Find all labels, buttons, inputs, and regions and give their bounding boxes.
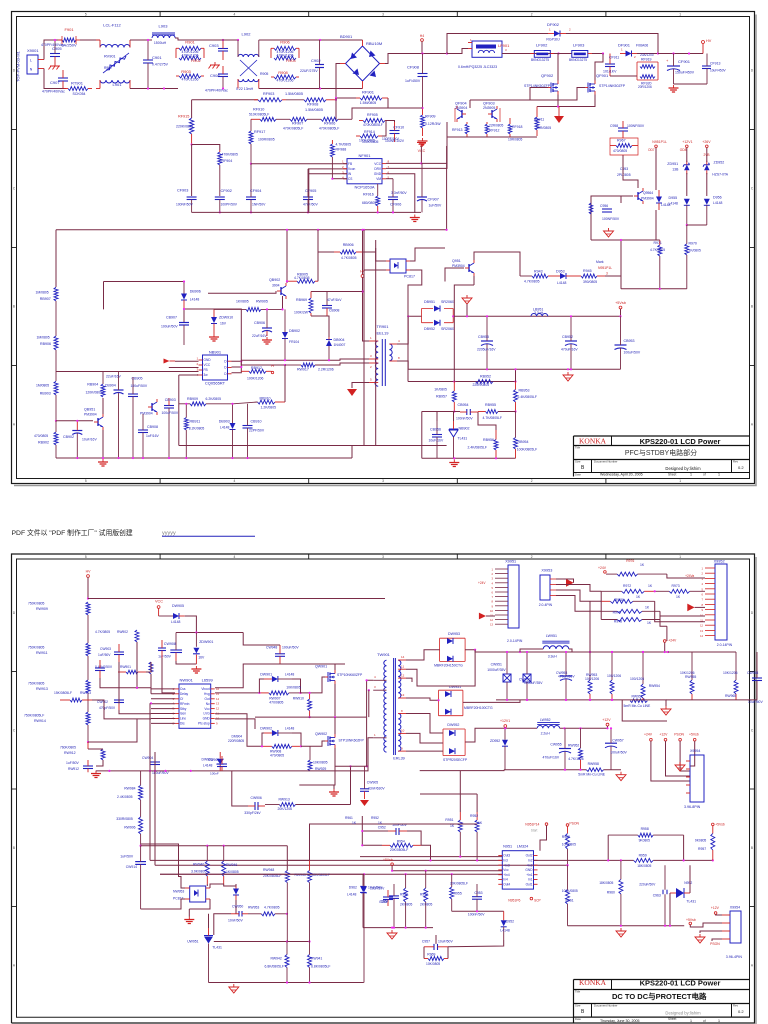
svg-text:L902: L902 [242,32,252,37]
svg-text:1000uF/35V: 1000uF/35V [524,681,543,685]
resistor RW919 [308,746,328,771]
transistor QB952 [148,399,157,415]
sep line [611,436,613,446]
svg-text:PSON: PSON [710,942,720,946]
junction [421,107,423,109]
svg-text:1500uH: 1500uH [154,41,167,45]
24v rail [520,651,668,653]
svg-text:RF905: RF905 [367,113,378,117]
svg-text:20A/1200: 20A/1200 [640,53,654,57]
capacitor CW904 [142,752,169,775]
svg-text:12: 12 [401,674,405,678]
svg-text:+In1: +In1 [526,873,533,877]
resistor RF909 [421,108,442,136]
capacitor CW952 [519,652,543,700]
junction [567,368,569,370]
svg-text:R957: R957 [698,847,706,851]
wire fuse to choke [80,39,100,41]
wire pin2 to RW917 [315,363,369,365]
wire pin11 wire [406,650,475,686]
svg-text:RF904: RF904 [222,159,233,163]
svg-text:4: 4 [234,479,236,483]
resistor RF906 [319,117,352,130]
svg-text:ZD952: ZD952 [714,161,725,165]
wire rw946 down [224,884,236,886]
svg-text:DF902: DF902 [547,22,560,27]
svg-text:TW901: TW901 [377,652,391,657]
optocoupler NW953 [173,886,210,902]
feedback rows [150,857,568,875]
svg-text:CF904: CF904 [250,189,261,193]
svg-text:1K: 1K [640,563,645,567]
svg-text:CW905: CW905 [367,781,378,785]
label mark net [596,260,612,270]
capacitor CF902 [215,189,238,212]
svg-text:470K/0805LF: 470K/0805LF [319,126,339,130]
svg-text:R968: R968 [615,598,623,602]
label 470PF bottom [205,87,254,93]
capacitor CB952 [561,316,578,369]
svg-text:0.12R/3W: 0.12R/3W [425,122,441,126]
svg-text:RW905: RW905 [256,300,268,304]
ground fb bus [449,460,459,467]
svg-text:R958: R958 [641,827,649,831]
svg-text:X9954: X9954 [730,906,740,910]
svg-text:CW950: CW950 [232,905,243,909]
mosfet QW901 [325,670,335,684]
TL431 UW951 [187,928,222,983]
label NW951 [503,845,528,849]
svg-text:2.4K/0805LF: 2.4K/0805LF [468,446,487,450]
svg-text:R967: R967 [617,139,626,143]
svg-text:KONKA: KONKA [579,437,607,446]
svg-text:C953: C953 [474,891,482,895]
svg-text:ZDW901: ZDW901 [199,640,213,644]
svg-text:NF901: NF901 [358,153,371,158]
wire q951 emitter [473,276,475,285]
svg-text:14: 14 [401,655,405,659]
wire L to top rail [44,40,62,60]
capacitor CB954 [456,403,478,421]
svg-text:L901: L901 [113,82,123,87]
svg-text:R952: R952 [371,816,379,820]
resistor RW901b [118,670,146,674]
thermistor RT901 [64,81,92,97]
wire vboot [215,664,280,688]
svg-text:Cf: Cf [180,697,183,701]
wire choke top out [130,39,152,41]
svg-text:150uF/450V: 150uF/450V [675,71,695,75]
junction [565,651,567,653]
power stub +12V out [602,718,611,726]
svg-text:0.22 13mH: 0.22 13mH [236,87,254,91]
title KPS220-01 LCD Power [640,437,721,446]
svg-text:BKNO132T5: BKNO132T5 [531,58,549,62]
wire q952 net [621,239,660,241]
svg-text:RF901: RF901 [362,90,375,95]
resistor R957 [695,826,715,861]
junction [514,410,516,412]
junction [308,981,310,983]
svg-text:L4148: L4148 [285,727,295,731]
wire QF901 drain [595,54,603,81]
wire nb901 d mid [232,366,242,368]
svg-text:1K: 1K [636,595,641,599]
wire QB951 coll [102,398,104,414]
capacitor C908 [210,66,228,89]
capacitor CW906 [244,796,265,815]
capacitor CF908 [405,54,428,109]
svg-text:FB: FB [204,368,208,372]
wire uw951 top [208,914,210,928]
net stub PSON [566,822,579,827]
svg-text:10: 10 [401,729,405,733]
junction [258,692,260,694]
resistor RB906 [334,243,362,260]
svg-text:In2: In2 [528,859,533,863]
junction [150,702,152,704]
wire snubber link [610,75,637,77]
svg-text:In4: In4 [503,878,508,882]
svg-text:2205uF/16V: 2205uF/16V [477,348,496,352]
svg-text:2.0-14PIN: 2.0-14PIN [507,639,523,643]
svg-text:470K/0805LF: 470K/0805LF [363,123,383,127]
svg-text:4.7K/0805: 4.7K/0805 [95,630,110,634]
capacitor CB956 [429,421,444,458]
svg-text:3904: 3904 [272,284,280,288]
svg-text:CW914: CW914 [126,865,137,869]
svg-text:6.8K/0805LF: 6.8K/0805LF [265,964,284,968]
wire PFC top link [447,34,548,54]
svg-text:220R/0805: 220R/0805 [228,739,244,743]
svg-text:KPS220-01 LCD Power: KPS220-01 LCD Power [640,437,721,446]
svg-text:9K0805: 9K0805 [695,839,707,843]
x9952 harness wires [655,574,705,626]
wire RF915 top [191,100,193,118]
svg-text:N951P1L: N951P1L [652,140,667,144]
row 860 wire [534,859,713,861]
prot gnd junctions 2 [620,925,671,927]
zone ticks vertical [12,130,755,366]
wire 12v gnd rail2 [604,769,621,771]
svg-text:L4148: L4148 [557,281,567,285]
junction [683,859,685,861]
svg-text:RF988: RF988 [336,148,347,152]
junction [334,716,336,718]
PFC inductor LF901 [458,38,510,69]
resistor RB953 [514,382,537,412]
svg-text:10K/0805: 10K/0805 [313,761,328,765]
mid fb row [214,941,310,943]
svg-text:HV: HV [706,39,712,43]
diode D956 [704,196,723,226]
capacitor CW914 [120,846,146,909]
wire right mid rail [666,699,757,701]
svg-text:Isen: Isen [180,712,186,716]
svg-text:750K/0805: 750K/0805 [28,602,45,606]
bus junction dots [286,229,448,231]
junction [514,380,516,382]
svg-text:2K/0805: 2K/0805 [420,903,432,907]
size col lines [592,460,732,473]
IC NW901 L6599 [175,684,215,728]
label QB951 [84,408,97,417]
capacitor CB905 [128,377,148,459]
svg-text:510K/0805LF: 510K/0805LF [249,113,269,117]
svg-text:+5Vsb: +5Vsb [715,823,725,827]
wire bus up right [351,446,353,459]
ground triangle prot2 [616,928,626,937]
svg-text:PM3904: PM3904 [641,197,654,201]
resistor RW956 [607,652,621,700]
wire rw916 placeholder [88,748,103,750]
c957 box [424,935,448,959]
svg-text:R959: R959 [639,854,647,858]
svg-text:C953: C953 [620,167,628,171]
junction [589,699,591,701]
junction [250,211,252,213]
pfc gnd arrow cw905 [360,800,369,806]
svg-text:10R/0805: 10R/0805 [508,138,522,142]
junction [557,52,559,54]
label ZD951 [667,162,679,172]
page border inner [17,559,750,1017]
wire lw951 out [569,649,572,652]
svg-text:TL431: TL431 [212,946,222,950]
wire CF908 node left [388,98,423,108]
svg-text:15: 15 [216,692,220,696]
wire rf914 link [382,121,390,137]
svg-text:4.7K/0805: 4.7K/0805 [336,142,352,146]
capacitor C956 [600,204,620,221]
diode DF902 [546,22,571,42]
svg-text:100R/0805: 100R/0805 [258,138,275,142]
wire DF901 out [637,53,658,55]
wire rf905 link [390,121,395,123]
svg-text:100K/1206: 100K/1206 [247,377,264,381]
svg-text:STP14NK50ZFP: STP14NK50ZFP [599,84,626,88]
resistor RF988 [330,140,351,179]
ground zdw901 [191,666,201,673]
svg-text:10uF/50V: 10uF/50V [370,887,385,891]
capacitor CW958 [747,652,763,704]
svg-text:L903: L903 [159,24,169,29]
svg-text:R952: R952 [470,814,478,818]
wire vcc node box [176,632,243,634]
ground ZDW910 [209,334,219,341]
svg-text:NW901: NW901 [180,678,194,683]
fb bottom bus [422,457,516,459]
svg-text:D962: D962 [349,886,357,890]
wire lw951 in [520,649,543,652]
svg-text:OD7: OD7 [648,148,655,152]
svg-text:1uF/50V: 1uF/50V [98,653,111,657]
transistor Q951 [465,260,474,276]
svg-text:R972: R972 [623,584,631,588]
TL431 NW952 [670,881,696,904]
resistor RW908 [262,744,301,757]
junction [607,859,609,861]
svg-text:RW909: RW909 [36,607,48,611]
svg-text:CW907: CW907 [208,758,219,762]
resistor R972 [601,584,655,593]
wire d956 join [687,224,707,226]
wire opto vertical 2 [375,240,377,261]
capacitor CW912 [208,756,227,776]
resistor R971 [650,240,665,289]
wire pin13 to dw951 [406,698,439,700]
svg-text:100/1206: 100/1206 [630,677,644,681]
label QF901 [596,73,626,88]
wire nb901 pin4 [179,374,199,376]
svg-text:C903: C903 [209,43,219,48]
svg-text:1000uF/35V: 1000uF/35V [487,668,506,672]
svg-text:RB912: RB912 [251,366,262,370]
resistor RF918 [508,118,523,142]
wire hvg row [215,692,259,694]
logo KONKA [579,437,607,446]
svg-text:RW911: RW911 [36,651,48,655]
svg-text:4.7K/0805: 4.7K/0805 [264,906,280,910]
svg-text:RF906: RF906 [324,122,335,126]
svg-text:C907: C907 [50,80,60,85]
capacitor C902 [300,40,324,89]
junction [654,590,656,592]
ground stby bus [98,459,108,466]
junction [466,315,468,317]
net arrow X9953 [566,579,574,587]
svg-text:VCC: VCC [374,162,381,166]
svg-text:1uF/450V: 1uF/450V [405,79,421,83]
svg-text:L4148: L4148 [190,298,200,302]
diode DW901 [260,672,294,682]
wire CS pin [332,178,347,180]
svg-text:DB951: DB951 [424,300,435,304]
optocoupler PC817 p1 [386,259,415,279]
svg-text:760K/0805: 760K/0805 [60,746,76,750]
svg-text:RGP30J: RGP30J [546,38,559,42]
svg-text:N951: N951 [503,845,512,849]
svg-text:10K/0805: 10K/0805 [286,686,301,690]
svg-text:R901: R901 [185,40,195,45]
page shadow [755,557,757,1024]
svg-text:R976: R976 [626,559,634,563]
svg-text:RW953: RW953 [248,906,259,910]
svg-text:STP10NK60ZFP: STP10NK60ZFP [339,739,365,743]
svg-text:RW955: RW955 [685,675,696,679]
svg-text:RW941: RW941 [311,957,322,961]
svg-text:R955: R955 [454,891,462,895]
svg-text:RW945: RW945 [295,873,306,877]
svg-text:22uF/16V: 22uF/16V [252,334,267,338]
svg-text:UW951: UW951 [187,940,198,944]
svg-text:5: 5 [85,555,87,559]
resistor RW913 [28,680,90,712]
svg-text:22R/0805: 22R/0805 [489,124,503,128]
svg-text:Sheet: Sheet [668,473,676,477]
wire 5vsb stub [620,309,622,316]
svg-text:D953: D953 [556,270,565,274]
svg-text:MBRF20H150CTG: MBRF20H150CTG [434,663,463,667]
svg-text:100nF/50V: 100nF/50V [468,913,485,917]
svg-text:5: 5 [85,13,87,17]
svg-text:Document Number: Document Number [594,1004,618,1008]
resistor R903 [176,69,204,82]
svg-text:CF906: CF906 [390,203,401,207]
svg-text:C908: C908 [210,73,220,78]
svg-text:MBRF20H100CTG: MBRF20H100CTG [464,706,493,710]
svg-text:CF910: CF910 [393,126,404,130]
resistor RF916 [362,184,380,213]
junction [223,845,225,847]
resistor RF912 [485,122,503,137]
junction [284,364,286,366]
svg-text:1K/0805: 1K/0805 [434,388,447,392]
junction [286,280,288,282]
svg-text:NW953: NW953 [173,890,184,894]
ground triangle 24v [661,706,671,715]
resistor R906 [271,40,299,55]
label DocNumber p2 [594,1004,618,1008]
resistor RW910 [286,686,311,718]
svg-text:RW954: RW954 [649,684,660,688]
wire gate qw901 [301,677,326,693]
resistor RB956 [468,430,499,458]
capacitor C958 [610,121,645,138]
wire gnd tri stub [466,304,468,316]
svg-text:RW953: RW953 [586,673,597,677]
junction [686,224,688,226]
resistor RW945 [295,860,330,942]
capacitor CW948 [266,645,299,664]
top bus p2 [88,598,385,600]
resistor RW953b [248,906,287,916]
net stub N951P1L [648,140,667,152]
page border inner [17,17,750,479]
svg-text:CW903: CW903 [100,647,111,651]
svg-text:L: L [30,59,32,63]
svg-text:10nF/50V: 10nF/50V [228,919,243,923]
net arrow X9951 [478,581,486,619]
fb bottom rail [209,982,364,984]
svg-text:+24Va: +24Va [685,574,694,578]
svg-text:1K: 1K [676,595,681,599]
svg-text:10R/0805: 10R/0805 [536,126,551,130]
ground CB906 [262,337,272,344]
svg-text:Hvg: Hvg [204,692,210,696]
svg-text:R954: R954 [397,840,405,844]
junction [474,649,476,651]
capacitor CB953 [615,316,641,369]
junction [195,631,197,633]
wire cw905 rail [335,717,367,766]
svg-text:CF911: CF911 [609,56,619,60]
svg-text:RW942: RW942 [271,957,282,961]
12v gnd rail [504,769,586,771]
wire 12v rail2 [560,727,608,729]
svg-text:RV901: RV901 [104,55,116,59]
wire q951 base [445,268,464,282]
svg-text:10K/1206: 10K/1206 [723,671,738,675]
junction [664,651,666,653]
net stub 5vsb prot [383,858,393,866]
svg-text:Title: Title [575,990,581,994]
ground left chain [91,771,101,778]
wire dw902 jog2 [292,733,301,746]
ground CF901 [669,85,679,92]
junction [361,229,363,231]
svg-text:of: of [703,1019,706,1023]
